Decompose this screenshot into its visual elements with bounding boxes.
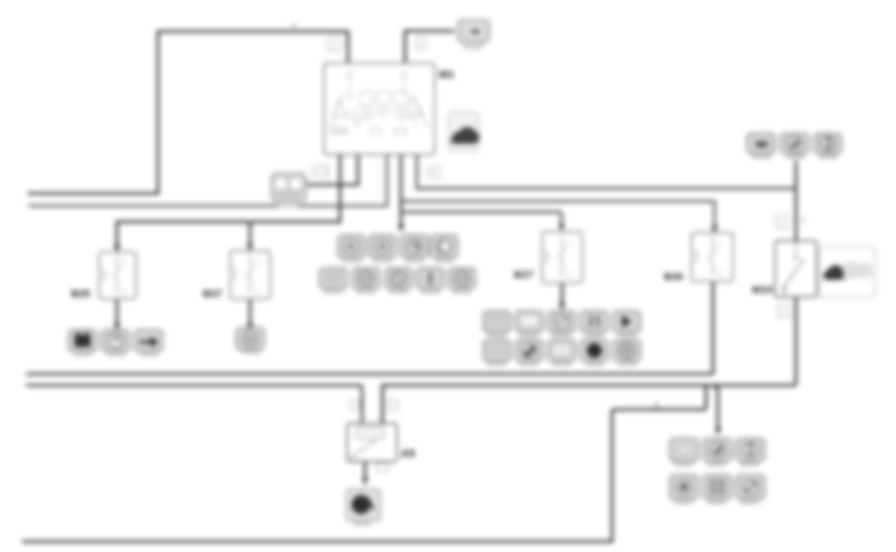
svg-text:2: 2	[781, 308, 786, 317]
connector BR4	[670, 475, 699, 505]
ECU internals	[330, 72, 428, 135]
wire bus2-left-main to A5	[26, 385, 362, 423]
arrow into icon grid	[559, 303, 566, 310]
pin box below M box	[778, 305, 791, 318]
svg-text:M10: M10	[752, 284, 773, 296]
connector RC2	[369, 235, 397, 264]
wire H3 to B27 mid	[401, 212, 562, 225]
icon clock dial	[101, 330, 130, 357]
wire bus2-left	[28, 155, 387, 206]
car icon right of ECU	[448, 112, 480, 151]
connector TR3	[814, 133, 842, 159]
icon IG2	[515, 311, 543, 338]
svg-text:2: 2	[568, 273, 572, 280]
svg-text:a: a	[801, 215, 806, 224]
icon IG7	[515, 340, 543, 367]
svg-text:a: a	[291, 20, 296, 30]
icon IG5	[613, 311, 641, 338]
arrow into B26	[711, 226, 718, 233]
wire B27-mid drop to icon grid	[561, 283, 564, 307]
svg-text:1: 1	[568, 240, 572, 247]
variant panel right of M box	[819, 247, 875, 297]
icon arrow	[134, 330, 163, 357]
wire B25 drop to icons	[116, 299, 119, 326]
svg-text:1: 1	[779, 219, 784, 228]
wire B26 drop to bus1	[712, 282, 715, 374]
svg-text:1: 1	[122, 259, 126, 266]
wire left connector to ECU	[307, 155, 358, 185]
wire bus3 B25/B27 feed	[117, 155, 340, 250]
svg-text:B25: B25	[71, 288, 90, 300]
svg-text:B27: B27	[203, 288, 222, 300]
icon IG3	[548, 311, 576, 338]
connector RC9	[448, 268, 476, 294]
svg-text:1: 1	[256, 259, 260, 266]
pin box ECU top-right pin	[416, 38, 427, 49]
svg-text:A5: A5	[401, 448, 415, 460]
wire bus1	[26, 373, 713, 376]
pin box above M box	[776, 216, 789, 229]
pin tick left of A5 pin1	[351, 400, 361, 410]
pump icon below A5	[346, 489, 381, 527]
svg-text:B27: B27	[514, 269, 533, 281]
arrow into B25	[114, 245, 121, 252]
connector trio top right	[747, 133, 842, 159]
svg-text:2: 2	[122, 290, 126, 297]
connector RC1	[338, 235, 366, 264]
connector RC4	[430, 235, 458, 264]
svg-text:2: 2	[718, 272, 722, 279]
icon IG4	[580, 311, 608, 338]
pin box ECU bottom-right	[428, 166, 440, 178]
arrow into pump icon	[362, 478, 369, 485]
connector BR1	[670, 438, 699, 467]
connector RC7	[385, 268, 413, 294]
connector TR2	[781, 133, 809, 159]
svg-text:a: a	[654, 399, 659, 409]
wire H2 to B26	[401, 201, 715, 230]
wire B27-left drop to icon	[249, 299, 252, 326]
connector BR6	[736, 475, 765, 505]
pin box ECU bottom-left	[317, 166, 328, 177]
icon grid centre row2	[483, 340, 641, 367]
svg-text:M1: M1	[439, 69, 454, 81]
wire ground run bottom	[22, 387, 706, 542]
icon IG9	[580, 340, 608, 367]
wire A5 to pump	[364, 462, 367, 481]
icon battery	[68, 330, 97, 357]
wire drop to B27 left	[249, 222, 252, 249]
connector BR3	[736, 438, 765, 467]
svg-text:2: 2	[331, 41, 336, 50]
connector TR1	[747, 133, 776, 159]
svg-text:3: 3	[431, 168, 436, 177]
icon IG6	[483, 340, 511, 367]
icon grid centre row1	[483, 311, 641, 338]
fuse B25	[71, 252, 136, 300]
pin box below A5	[377, 463, 388, 472]
icon IG10	[613, 340, 641, 367]
icon row under B25	[68, 330, 163, 357]
svg-text:1: 1	[316, 167, 321, 176]
arrow into B27 left	[247, 244, 254, 251]
connector BR2	[703, 438, 732, 467]
connector RC5	[319, 268, 347, 294]
wire bus2 to bottom-right connector group	[713, 386, 718, 429]
connector RC3	[401, 235, 429, 264]
connector RC8	[417, 268, 445, 294]
arrow into B27 mid	[558, 224, 565, 231]
connector RC6	[352, 268, 380, 294]
connector C1 top	[458, 20, 490, 49]
connector C2 left of ECU	[271, 173, 306, 207]
svg-text:2: 2	[256, 290, 260, 297]
wire M box to bus2-right	[383, 297, 797, 423]
connector group bottom-right row1	[670, 438, 766, 467]
arrow into icon under B27 left	[247, 323, 254, 330]
connector BR5	[703, 475, 732, 505]
wire H1 ECU to right vertical	[417, 155, 796, 189]
wire right vertical connectors to M box	[795, 161, 798, 241]
pin box connector C2	[314, 166, 326, 178]
fuse B27 mid	[514, 232, 582, 283]
arrowheads	[114, 224, 722, 485]
icon IG1	[483, 311, 511, 338]
wire ECU top pin to connector	[405, 31, 454, 63]
wire v3 ECU to connector group	[400, 155, 403, 226]
ECU M1 box	[324, 63, 454, 155]
pin box ECU top-left pin	[328, 38, 341, 51]
connector group RC row2	[319, 268, 475, 294]
svg-text:1: 1	[418, 40, 423, 49]
switch M box	[752, 241, 817, 297]
relay A5 box	[347, 424, 415, 462]
arrow into icon row under B25	[114, 323, 121, 330]
pin tick right of A5 pin2	[389, 400, 399, 410]
arrow into bottom-right group	[715, 428, 722, 435]
arrow into connector group	[398, 225, 405, 232]
connector group RC row1	[338, 235, 458, 264]
fuse B26	[664, 233, 733, 283]
fuse B27 left	[203, 251, 270, 300]
icon under B27 left	[236, 328, 264, 355]
connector group bottom-right row2	[670, 475, 766, 505]
svg-text:1: 1	[718, 241, 722, 248]
wire top-left feed to ECU pin	[28, 32, 348, 194]
svg-text:B26: B26	[664, 271, 683, 283]
icon IG8	[548, 340, 576, 367]
